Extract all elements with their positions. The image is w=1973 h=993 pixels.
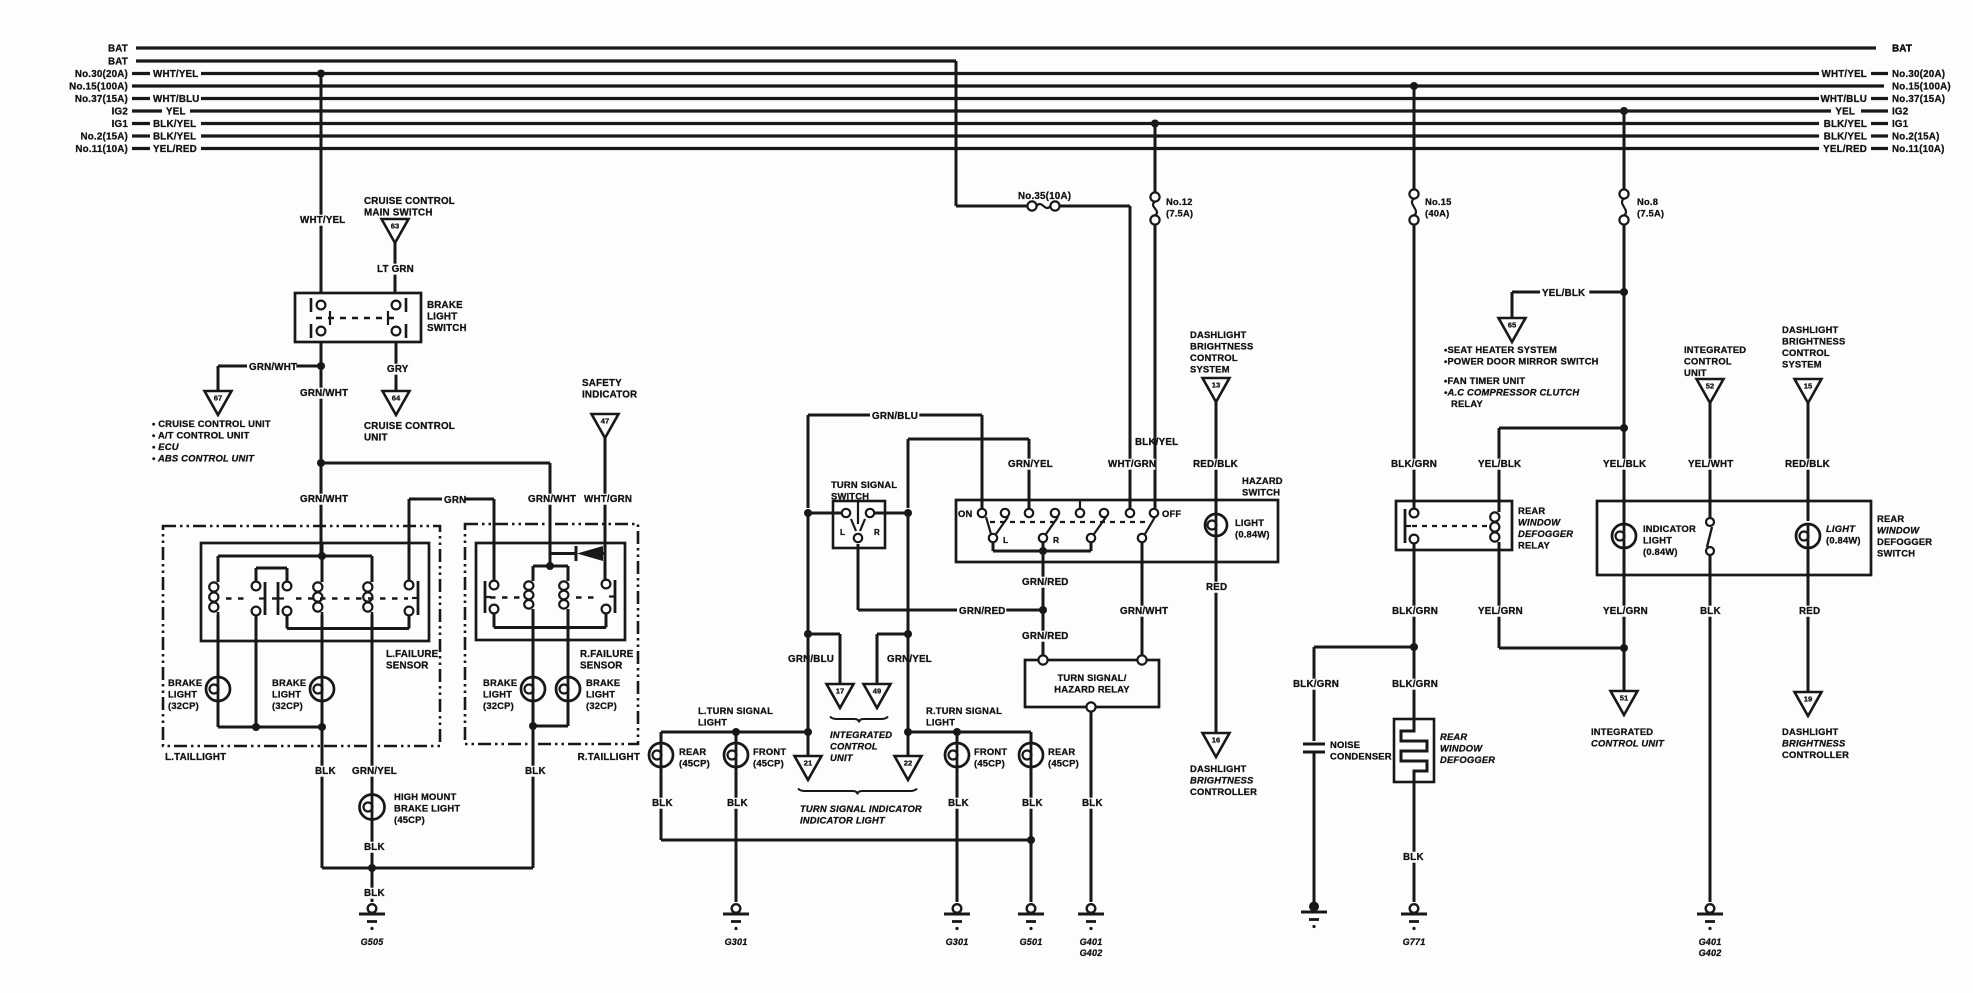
svg-text:49: 49	[873, 687, 881, 696]
contact L sensor right pair	[283, 582, 292, 591]
wire L sensor bottom link	[286, 615, 289, 629]
brake light bulb 1 (32CP)	[206, 677, 230, 701]
svg-text:G505: G505	[361, 937, 385, 947]
svg-text:SAFETY: SAFETY	[582, 378, 622, 389]
capacitor noise condenser	[1303, 743, 1325, 746]
L turn front bulb (45CP)	[735, 732, 738, 742]
svg-text:RED/BLK: RED/BLK	[1785, 459, 1830, 470]
label BLK/GRN condenser	[1291, 679, 1340, 690]
svg-text:BLK/YEL: BLK/YEL	[1824, 132, 1867, 143]
svg-text:YEL/WHT: YEL/WHT	[1688, 459, 1733, 470]
svg-text:WHT/YEL: WHT/YEL	[1822, 69, 1867, 80]
wire R turn light bus	[908, 731, 1031, 734]
inductor L sensor coil 3	[371, 579, 374, 582]
svg-text:SENSOR: SENSOR	[580, 661, 623, 672]
label GRN/RED upper	[1020, 577, 1069, 588]
defogger switch contact	[1709, 516, 1712, 518]
label WHT/GRN hazard	[1106, 459, 1155, 470]
svg-text:L.TAILLIGHT: L.TAILLIGHT	[165, 752, 226, 763]
svg-text:LIGHT: LIGHT	[427, 312, 457, 323]
svg-text:TURN SIGNAL: TURN SIGNAL	[831, 479, 897, 490]
wire bulbs bottom join L	[217, 702, 220, 727]
wire GRN/BLU horizontal	[808, 414, 982, 417]
svg-text:CONTROL UNIT: CONTROL UNIT	[1591, 738, 1665, 749]
svg-text:BAT: BAT	[108, 44, 128, 55]
svg-text:G401: G401	[1699, 937, 1722, 947]
wire IG1 drop to fuse No.12	[1154, 124, 1157, 193]
wire GRN/WHT horizontal to right taillight	[321, 462, 550, 465]
wire BAT bus (top)	[136, 46, 1876, 49]
svg-text:YEL/RED: YEL/RED	[1823, 144, 1867, 155]
svg-text:DEFOGGER: DEFOGGER	[1440, 754, 1495, 765]
ground G401 G402 middle	[1087, 904, 1096, 913]
svg-text:WHT/BLU: WHT/BLU	[153, 94, 200, 105]
svg-text:No.30(20A): No.30(20A)	[75, 69, 128, 80]
label GRN/WHT branch	[247, 362, 296, 373]
svg-text:21: 21	[804, 759, 813, 768]
svg-text:WINDOW: WINDOW	[1518, 517, 1561, 528]
wire GRN/RED turn switch to hazard junction	[857, 544, 860, 610]
wire WHT/BLU No.37(15A) bus	[132, 97, 150, 100]
label YEL/BLK switch feed	[1601, 459, 1650, 470]
svg-text:GRN/YEL: GRN/YEL	[352, 766, 397, 777]
wire YEL/GRN relay coil down	[1498, 545, 1501, 648]
label BLK L rear	[650, 798, 673, 809]
svg-text:WHT/YEL: WHT/YEL	[153, 69, 198, 80]
svg-text:RELAY: RELAY	[1518, 540, 1550, 551]
svg-text:15: 15	[1804, 382, 1813, 391]
inductor defogger relay coil	[1498, 509, 1501, 512]
svg-text:R.FAILURE: R.FAILURE	[580, 649, 634, 660]
svg-text:51: 51	[1620, 694, 1629, 703]
rear window defogger heater	[1394, 719, 1434, 782]
label BLK ground G505	[362, 888, 385, 899]
connector 13 dashlight brightness	[1203, 378, 1230, 402]
node junction GRN/RED	[1039, 606, 1047, 614]
label YEL/GRN relay	[1476, 606, 1525, 617]
wire BAT bus 2	[136, 59, 956, 62]
wire YEL/BLK fuse No.8 down	[1623, 225, 1626, 509]
ground G501	[1027, 904, 1036, 913]
svg-text:13: 13	[1212, 381, 1220, 390]
svg-text:No.30(20A): No.30(20A)	[1892, 69, 1945, 80]
svg-text:INTEGRATED: INTEGRATED	[830, 729, 892, 740]
wire RED defogger light down	[1807, 575, 1810, 692]
wire GRN between failure sensors	[409, 498, 494, 501]
svg-text:(0.84W): (0.84W)	[1643, 546, 1678, 557]
svg-text:GRN/WHT: GRN/WHT	[528, 494, 576, 505]
svg-text:GRN/RED: GRN/RED	[1022, 577, 1069, 588]
wire L contact to bulb junction	[255, 615, 258, 727]
svg-text:BAT: BAT	[1892, 44, 1912, 55]
label GRN	[442, 495, 465, 506]
svg-text:LIGHT: LIGHT	[586, 689, 615, 700]
svg-text:TURN SIGNAL/: TURN SIGNAL/	[1057, 672, 1126, 683]
node junction No.15 bus tap	[1410, 82, 1418, 90]
svg-text:UNIT: UNIT	[364, 433, 388, 444]
svg-text:BLK: BLK	[364, 842, 385, 853]
label BLK L taillight	[313, 766, 336, 777]
contact R sensor left pair	[490, 581, 499, 590]
hazard switch stub	[1079, 500, 1081, 509]
svg-text:CONTROL: CONTROL	[1782, 347, 1830, 358]
label BLK L front	[725, 798, 748, 809]
label BLK R rear	[1020, 798, 1043, 809]
svg-text:•POWER DOOR MIRROR SWITCH: •POWER DOOR MIRROR SWITCH	[1444, 356, 1599, 367]
svg-text:HAZARD RELAY: HAZARD RELAY	[1054, 684, 1130, 695]
connector 17 integrated control unit	[827, 684, 854, 708]
wire BLK join taillights	[322, 867, 533, 870]
svg-text:CONDENSER: CONDENSER	[1330, 751, 1392, 762]
R turn rear bulb (45CP)	[1030, 732, 1033, 742]
brace integrated control unit	[830, 717, 888, 723]
svg-text:WHT/GRN: WHT/GRN	[1108, 459, 1156, 470]
svg-text:• ABS CONTROL UNIT: • ABS CONTROL UNIT	[152, 453, 255, 464]
svg-text:GRN/WHT: GRN/WHT	[1120, 606, 1168, 617]
brake light bulb 3 (32CP)	[521, 677, 545, 701]
inductor L sensor coil 1	[217, 579, 220, 582]
brake light switch pin 4 (bottom-right)	[392, 327, 401, 336]
svg-text:RED: RED	[1206, 582, 1227, 593]
svg-text:• A/T CONTROL UNIT: • A/T CONTROL UNIT	[152, 430, 250, 441]
wire L coil2 to brake bulb 2	[321, 615, 324, 676]
brake light switch linkage dashed	[316, 317, 400, 319]
svg-text:CONTROLLER: CONTROLLER	[1190, 786, 1257, 797]
label YEL/BLK branch	[1540, 288, 1589, 299]
svg-text:No.15: No.15	[1425, 196, 1452, 207]
svg-text:GRN: GRN	[444, 495, 466, 506]
svg-text:RELAY: RELAY	[1451, 398, 1483, 409]
svg-text:R.TAILLIGHT: R.TAILLIGHT	[578, 752, 640, 763]
svg-text:IG1: IG1	[1892, 119, 1909, 130]
svg-text:GRN/WHT: GRN/WHT	[300, 388, 348, 399]
fuse No.8 (7.5A)	[1619, 189, 1628, 198]
label YEL/GRN switch	[1601, 606, 1650, 617]
svg-text:ON: ON	[958, 508, 972, 519]
wire GRN/WHT left drop into L taillight	[320, 463, 323, 556]
svg-text:BRIGHTNESS: BRIGHTNESS	[1782, 336, 1845, 347]
svg-text:LIGHT: LIGHT	[1643, 535, 1672, 546]
svg-text:22: 22	[904, 759, 912, 768]
svg-text:65: 65	[1508, 321, 1517, 330]
svg-text:G301: G301	[725, 937, 748, 947]
wire RED/BLK connector 13 to hazard light	[1215, 402, 1218, 514]
connector 22 turn signal indicator	[907, 732, 910, 756]
svg-text:(45CP): (45CP)	[1048, 758, 1079, 769]
brake light switch box	[295, 293, 421, 342]
svg-text:WHT/BLU: WHT/BLU	[1820, 94, 1867, 105]
svg-text:INTEGRATED: INTEGRATED	[1684, 344, 1746, 355]
svg-text:WINDOW: WINDOW	[1877, 525, 1920, 536]
svg-text:No.15(100A): No.15(100A)	[69, 82, 128, 93]
brake light bulb 2 (32CP)	[310, 677, 334, 701]
wire BLK/GRN relay down	[1413, 543, 1416, 647]
wire L coil3 GRN/YEL down	[371, 615, 374, 795]
connector 49 integrated control unit	[864, 684, 891, 708]
svg-text:(45CP): (45CP)	[679, 758, 710, 769]
svg-text:LIGHT: LIGHT	[483, 689, 512, 700]
label GRN/WHT hazard-relay	[1118, 606, 1167, 617]
brake light bulb 4 (32CP)	[556, 677, 580, 701]
svg-text:(32CP): (32CP)	[586, 700, 617, 711]
ground G401 G402 right	[1706, 904, 1715, 913]
dashed linkage R sensor	[490, 596, 525, 598]
inductor R sensor coil 2	[567, 578, 570, 581]
label RED defogger	[1797, 606, 1820, 617]
svg-text:•SEAT HEATER SYSTEM: •SEAT HEATER SYSTEM	[1444, 344, 1557, 355]
wire R sensor bottom link	[493, 613, 496, 628]
svg-text:DASHLIGHT: DASHLIGHT	[1190, 763, 1247, 774]
label BLK high mount	[362, 842, 385, 853]
relay terminal bottom	[1086, 702, 1095, 711]
label GRN/WHT right drop	[526, 494, 575, 505]
svg-text:No.12: No.12	[1166, 196, 1193, 207]
svg-text:•FAN TIMER UNIT: •FAN TIMER UNIT	[1444, 375, 1525, 386]
svg-text:No.11(10A): No.11(10A)	[75, 144, 128, 155]
L taillight dashed enclosure	[163, 526, 440, 746]
svg-text:BLK: BLK	[525, 766, 546, 777]
svg-text:BLK/YEL: BLK/YEL	[1824, 119, 1867, 130]
wire BLK defogger switch to ground G401 G402	[1709, 575, 1712, 902]
fuse No.12 (7.5A)	[1150, 192, 1159, 201]
wire YEL/BLK branch to relay coil	[1499, 427, 1624, 430]
svg-text:CRUISE CONTROL: CRUISE CONTROL	[364, 421, 455, 432]
connector 16 dashlight brightness controller	[1203, 733, 1230, 757]
svg-text:64: 64	[392, 394, 401, 403]
svg-text:R: R	[1053, 535, 1059, 545]
svg-text:TURN SIGNAL INDICATOR: TURN SIGNAL INDICATOR	[800, 803, 922, 814]
svg-text:BLK/GRN: BLK/GRN	[1392, 606, 1438, 617]
svg-text:MAIN SWITCH: MAIN SWITCH	[364, 208, 433, 219]
wire BLK/GRN to defogger relay	[1413, 225, 1416, 509]
svg-text:INDICATOR LIGHT: INDICATOR LIGHT	[800, 815, 886, 826]
contact R sensor right pair	[602, 580, 611, 589]
wire BLK relay to ground G401 G402	[1090, 712, 1093, 902]
node junction IG2 tap	[1620, 107, 1628, 115]
node junction WHT/YEL bus tap	[317, 70, 325, 78]
indicator light bulb (0.84W)	[1623, 509, 1626, 523]
svg-text:BLK: BLK	[652, 798, 673, 809]
label BLK R front	[946, 798, 969, 809]
svg-text:16: 16	[1212, 736, 1220, 745]
svg-text:63: 63	[391, 222, 399, 231]
svg-text:19: 19	[1804, 695, 1812, 704]
connector 64 cruise control unit	[383, 391, 410, 415]
svg-text:CONTROL: CONTROL	[1684, 356, 1732, 367]
svg-text:BRIGHTNESS: BRIGHTNESS	[1190, 341, 1253, 352]
L failure sensor box	[201, 543, 429, 641]
connector 19 dashlight brightness controller	[1795, 692, 1822, 716]
wire WHT/GRN connector 47 down to R failure sensor	[604, 438, 607, 581]
svg-text:BLK: BLK	[1700, 606, 1721, 617]
wire YEL/RED No.11(10A) bus	[132, 147, 150, 150]
svg-text:IG2: IG2	[112, 107, 129, 118]
wire BLK defogger to ground G771	[1413, 782, 1416, 902]
wire L turn light bus	[661, 731, 808, 734]
svg-text:BLK: BLK	[315, 766, 336, 777]
label bus right wire colours	[1820, 69, 1867, 155]
svg-text:RED/BLK: RED/BLK	[1193, 459, 1238, 470]
wire L sensor contact bridge	[256, 567, 287, 570]
wire GRN/RED hazard down	[1042, 542, 1045, 655]
connector 52 integrated control unit	[1697, 379, 1724, 403]
label BLK/GRN upper	[1389, 459, 1438, 470]
wire BLK high mount down	[371, 820, 374, 903]
node junction GRN/BLU branch 17	[804, 630, 812, 638]
wire BLK/YEL No.2(15A) bus	[132, 134, 150, 137]
svg-text:BLK: BLK	[1082, 798, 1103, 809]
dashed linkage defogger relay	[1412, 525, 1489, 527]
svg-text:YEL/BLK: YEL/BLK	[1542, 288, 1585, 299]
svg-text:L: L	[1003, 535, 1008, 545]
label GRN/WHT vertical	[298, 388, 347, 399]
label WHT/GRN	[582, 494, 631, 505]
svg-text:YEL/BLK: YEL/BLK	[1603, 459, 1646, 470]
wire YEL/BLK branch to connector 65	[1512, 291, 1624, 294]
svg-text:(7.5A): (7.5A)	[1166, 208, 1193, 219]
svg-text:SYSTEM: SYSTEM	[1782, 359, 1822, 370]
label BLK defogger	[1401, 852, 1424, 863]
svg-text:52: 52	[1706, 382, 1714, 391]
inductor L sensor coil 2	[321, 579, 324, 582]
svg-text:CONTROL: CONTROL	[830, 741, 878, 752]
svg-text:YEL/RED: YEL/RED	[153, 144, 197, 155]
wire RED/BLK connector 15 to defogger switch light	[1807, 403, 1810, 521]
svg-text:•A.C COMPRESSOR CLUTCH: •A.C COMPRESSOR CLUTCH	[1444, 387, 1579, 398]
svg-text:(45CP): (45CP)	[974, 758, 1005, 769]
label bus left wire colours	[153, 69, 200, 155]
svg-text:67: 67	[214, 394, 222, 403]
brake light switch pin 1 (top-left)	[317, 301, 326, 310]
svg-text:(32CP): (32CP)	[168, 700, 199, 711]
svg-text:G501: G501	[1020, 937, 1043, 947]
ground noise condenser	[1309, 902, 1319, 912]
svg-text:INTEGRATED: INTEGRATED	[1591, 726, 1653, 737]
svg-text:SWITCH: SWITCH	[1242, 487, 1280, 498]
label GRN/RED horizontal	[957, 606, 1006, 617]
node junction GRN/WHT to taillights	[317, 459, 325, 467]
svg-text:GRN/RED: GRN/RED	[959, 606, 1006, 617]
ground G301 left	[732, 904, 741, 913]
svg-text:BLK/GRN: BLK/GRN	[1392, 679, 1438, 690]
svg-text:LIGHT: LIGHT	[272, 689, 301, 700]
svg-text:BRAKE: BRAKE	[272, 677, 306, 688]
svg-text:SENSOR: SENSOR	[386, 661, 429, 672]
wire WHT/YEL No.30(20A) bus	[132, 72, 150, 75]
svg-text:LIGHT: LIGHT	[926, 717, 955, 728]
label BAT right dash	[1840, 47, 1876, 50]
label GRN/BLU lower	[786, 654, 835, 665]
label BLK/YEL hazard feed	[1133, 437, 1182, 448]
svg-text:G301: G301	[946, 937, 969, 947]
svg-text:BLK: BLK	[948, 798, 969, 809]
wire BLK L front to ground G301	[735, 768, 738, 902]
label BLK relay	[1080, 798, 1103, 809]
wire GRN/YEL horizontal	[908, 438, 1029, 441]
label RED	[1204, 582, 1227, 593]
svg-text:DEFOGGER: DEFOGGER	[1877, 536, 1932, 547]
wire BLK/YEL IG1 bus	[132, 122, 150, 125]
relay terminals top	[1038, 655, 1047, 664]
svg-text:(45CP): (45CP)	[753, 758, 784, 769]
connector 51 integrated control unit	[1611, 691, 1638, 715]
label LT GRN	[375, 264, 418, 275]
wire RED hazard light down	[1215, 562, 1218, 733]
svg-text:BRIGHTNESS: BRIGHTNESS	[1782, 738, 1846, 749]
svg-text:WHT/GRN: WHT/GRN	[584, 494, 632, 505]
svg-text:BRAKE: BRAKE	[483, 677, 517, 688]
svg-text:BLK/YEL: BLK/YEL	[153, 119, 196, 130]
svg-text:HIGH MOUNT: HIGH MOUNT	[394, 791, 456, 802]
svg-text:(45CP): (45CP)	[394, 814, 425, 825]
wire branch to connector 49	[877, 633, 908, 636]
connector 65	[1499, 318, 1526, 342]
svg-text:GRN/BLU: GRN/BLU	[872, 411, 918, 422]
wire WHT/YEL vertical to brake light switch	[320, 74, 323, 294]
wire turn switch left link	[808, 512, 841, 515]
wire BAT2 drop to fuse No.35	[955, 61, 958, 206]
svg-text:INDICATOR: INDICATOR	[1643, 523, 1696, 534]
wire GRN/BLU to L turn lights	[807, 513, 810, 732]
svg-text:SWITCH: SWITCH	[1877, 548, 1915, 559]
wire L sensor coil bridge	[218, 555, 372, 558]
svg-text:L.TURN SIGNAL: L.TURN SIGNAL	[698, 705, 773, 716]
brake light switch pin 3 (top-right)	[392, 301, 401, 310]
wire BLK/GRN defogger down	[1413, 647, 1416, 719]
label YEL/WHT	[1686, 459, 1735, 470]
R taillight dashed enclosure	[465, 524, 638, 744]
label YEL/BLK relay coil	[1476, 459, 1525, 470]
svg-text:No.37(15A): No.37(15A)	[75, 94, 128, 105]
node junction IG1 tap	[1151, 120, 1159, 128]
wire YEL/WHT connector 52 to defogger switch	[1709, 403, 1712, 516]
svg-text:WINDOW: WINDOW	[1440, 743, 1483, 754]
svg-text:REAR: REAR	[1518, 505, 1545, 516]
label GRN/BLU	[870, 411, 919, 422]
svg-text:CONTROL: CONTROL	[1190, 352, 1238, 363]
svg-text:BLK: BLK	[364, 888, 385, 899]
wire R coil2 to brake bulb 4	[567, 609, 570, 676]
svg-text:REAR: REAR	[679, 746, 706, 757]
svg-text:IG2: IG2	[1892, 107, 1909, 118]
turn signal switch terminals	[842, 509, 850, 517]
svg-text:R: R	[874, 528, 880, 537]
svg-text:WHT/YEL: WHT/YEL	[300, 215, 345, 226]
hazard switch bottom terminals	[989, 534, 997, 542]
defogger switch light bulb (0.84W)	[1796, 524, 1820, 548]
svg-text:NOISE: NOISE	[1330, 739, 1360, 750]
label GRY	[385, 364, 408, 375]
svg-text:• CRUISE CONTROL UNIT: • CRUISE CONTROL UNIT	[152, 418, 271, 429]
svg-text:INDICATOR: INDICATOR	[582, 390, 637, 401]
svg-text:(32CP): (32CP)	[272, 700, 303, 711]
hazard switch box	[956, 500, 1278, 562]
svg-text:GRN/RED: GRN/RED	[1022, 631, 1069, 642]
svg-text:No.37(15A): No.37(15A)	[1892, 94, 1945, 105]
svg-text:YEL: YEL	[166, 107, 186, 118]
contact L sensor left pair	[252, 582, 261, 591]
wire BLK L rear bulb to common	[660, 768, 663, 840]
svg-text:LIGHT: LIGHT	[1235, 517, 1264, 528]
hazard switch linkage dashed	[990, 521, 1148, 523]
svg-text:YEL: YEL	[1835, 107, 1855, 118]
wire YEL/GRN defogger switch down	[1623, 575, 1626, 691]
wire BLK/GRN No.15 drop to fuse	[1413, 86, 1416, 189]
svg-text:BLK/GRN: BLK/GRN	[1391, 459, 1437, 470]
wire R coil1 to brake bulb 3	[532, 609, 535, 676]
svg-text:47: 47	[601, 417, 609, 426]
svg-text:BLK/YEL: BLK/YEL	[1135, 437, 1178, 448]
